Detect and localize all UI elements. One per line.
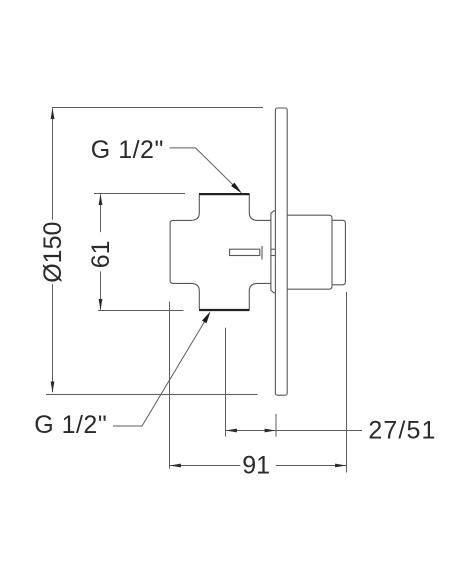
dimension 61 extension line top bbox=[94, 193, 185, 195]
wall plate (side view) bbox=[275, 108, 287, 395]
dimension D150 line bbox=[52, 108, 54, 392]
top port G 1/2 thread face (bold edge) bbox=[199, 193, 250, 195]
stem end plate bbox=[261, 246, 263, 260]
dimension 61 arrow up bbox=[99, 194, 103, 205]
dimension 27/51 arrow left bbox=[226, 429, 237, 433]
dimension 61 line bbox=[100, 194, 102, 310]
dimension D150 arrow down bbox=[51, 382, 55, 393]
mounting flange between body and plate bbox=[271, 211, 276, 293]
label G 1/2 top leader bbox=[170, 148, 240, 191]
svg-text:61: 61 bbox=[87, 240, 115, 268]
dimension 61 extension line bottom bbox=[98, 310, 184, 312]
dimension 91 line bbox=[170, 465, 347, 467]
label G 1/2 bottom leader bbox=[113, 315, 209, 426]
handle knob body bbox=[287, 215, 332, 289]
dimension 27/51 extension line right (wall face) bbox=[275, 414, 277, 437]
svg-text:Ø150: Ø150 bbox=[39, 222, 67, 283]
label G 1/2 bottom leader arrowhead bbox=[202, 311, 211, 323]
dimension 27/51 line bbox=[226, 430, 363, 432]
dimension 91 arrow right bbox=[335, 464, 346, 468]
dimension 91 extension line right bbox=[346, 292, 348, 473]
svg-text:G 1/2": G 1/2" bbox=[91, 136, 164, 164]
dimension 61 arrow down bbox=[99, 299, 103, 310]
stem passage through flange bbox=[271, 249, 276, 255]
dimension 27/51 arrow right bbox=[265, 429, 276, 433]
svg-text:G 1/2": G 1/2" bbox=[34, 411, 107, 439]
dimension 91 arrow left bbox=[170, 464, 181, 468]
svg-text:91: 91 bbox=[242, 452, 270, 480]
dimension D150 extension line top bbox=[52, 107, 263, 109]
dimension 91 extension line left bbox=[169, 302, 171, 469]
handle knob end cap bbox=[332, 220, 345, 284]
valve stem bbox=[230, 249, 260, 255]
dimension D150 arrow up bbox=[51, 108, 55, 119]
valve body outline bbox=[170, 194, 271, 309]
label G 1/2 top leader arrowhead bbox=[231, 183, 242, 194]
bottom port G 1/2 thread face (bold edge) bbox=[199, 309, 250, 311]
dimension 27/51 extension line left bbox=[225, 328, 227, 437]
svg-text:27/51: 27/51 bbox=[368, 417, 436, 445]
dimension D150 extension line bottom bbox=[46, 394, 258, 396]
